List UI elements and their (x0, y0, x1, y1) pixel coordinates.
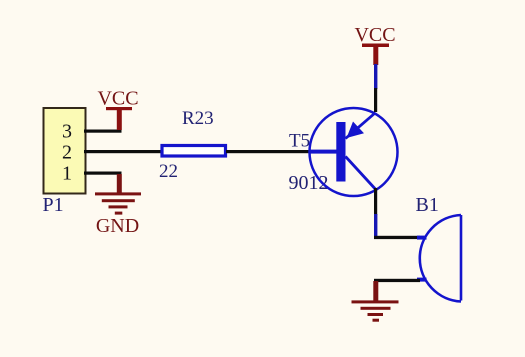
transistor collector line (346, 157, 376, 190)
wire pin1 to GND (84, 172, 122, 175)
svg-text:VCC: VCC (97, 88, 138, 110)
transistor base pin line (309, 150, 337, 154)
svg-text:T5: T5 (289, 131, 310, 152)
wire VCC blue segment (374, 64, 377, 89)
wire pin3 to VCC (84, 130, 122, 133)
svg-text:2: 2 (62, 142, 72, 164)
buzzer body (420, 215, 461, 302)
transistor emitter arrow (347, 122, 365, 139)
svg-text:VCC: VCC (354, 24, 395, 46)
resistor R23 body (162, 146, 226, 157)
svg-text:P1: P1 (43, 194, 64, 216)
buzzer bottom pin (417, 278, 427, 282)
pin number 3 (62, 121, 72, 143)
buzzer B1 designator (416, 194, 439, 216)
wire buzzer bottom pin to ground (374, 279, 420, 282)
transistor base bar (336, 122, 345, 182)
transistor value 9012 (289, 172, 329, 194)
wire corner to buzzer top pin (374, 236, 420, 239)
wire VCC to emitter (374, 88, 377, 112)
transistor Q body circle (310, 108, 398, 196)
power VCC label (top) (354, 24, 395, 46)
svg-text:22: 22 (159, 161, 178, 182)
buzzer top pin (417, 236, 427, 240)
resistor value 22 (159, 161, 178, 182)
transistor T5 designator (289, 131, 310, 152)
power VCC bar symbol (top) (362, 44, 389, 66)
wire R23 to transistor base (226, 150, 311, 153)
wire collector down (374, 188, 377, 215)
resistor R23 designator (182, 108, 214, 129)
svg-text:GND: GND (96, 215, 139, 237)
connector P1 body (44, 108, 86, 194)
wire pin2 to R23 (84, 150, 161, 153)
pin number 1 (62, 163, 72, 185)
ground symbol (right) (352, 281, 399, 322)
wire collector blue segment (374, 214, 377, 236)
power VCC bar symbol (left) (106, 107, 132, 130)
svg-text:3: 3 (62, 121, 72, 143)
transistor emitter line (346, 114, 375, 139)
power VCC label (left) (97, 88, 138, 110)
ground symbol (left) (95, 174, 141, 215)
svg-text:B1: B1 (416, 194, 439, 216)
svg-text:1: 1 (62, 163, 72, 185)
pin number 2 (62, 142, 72, 164)
ground label GND (96, 215, 139, 237)
connector designator P1 (43, 194, 64, 216)
svg-text:R23: R23 (182, 108, 214, 129)
